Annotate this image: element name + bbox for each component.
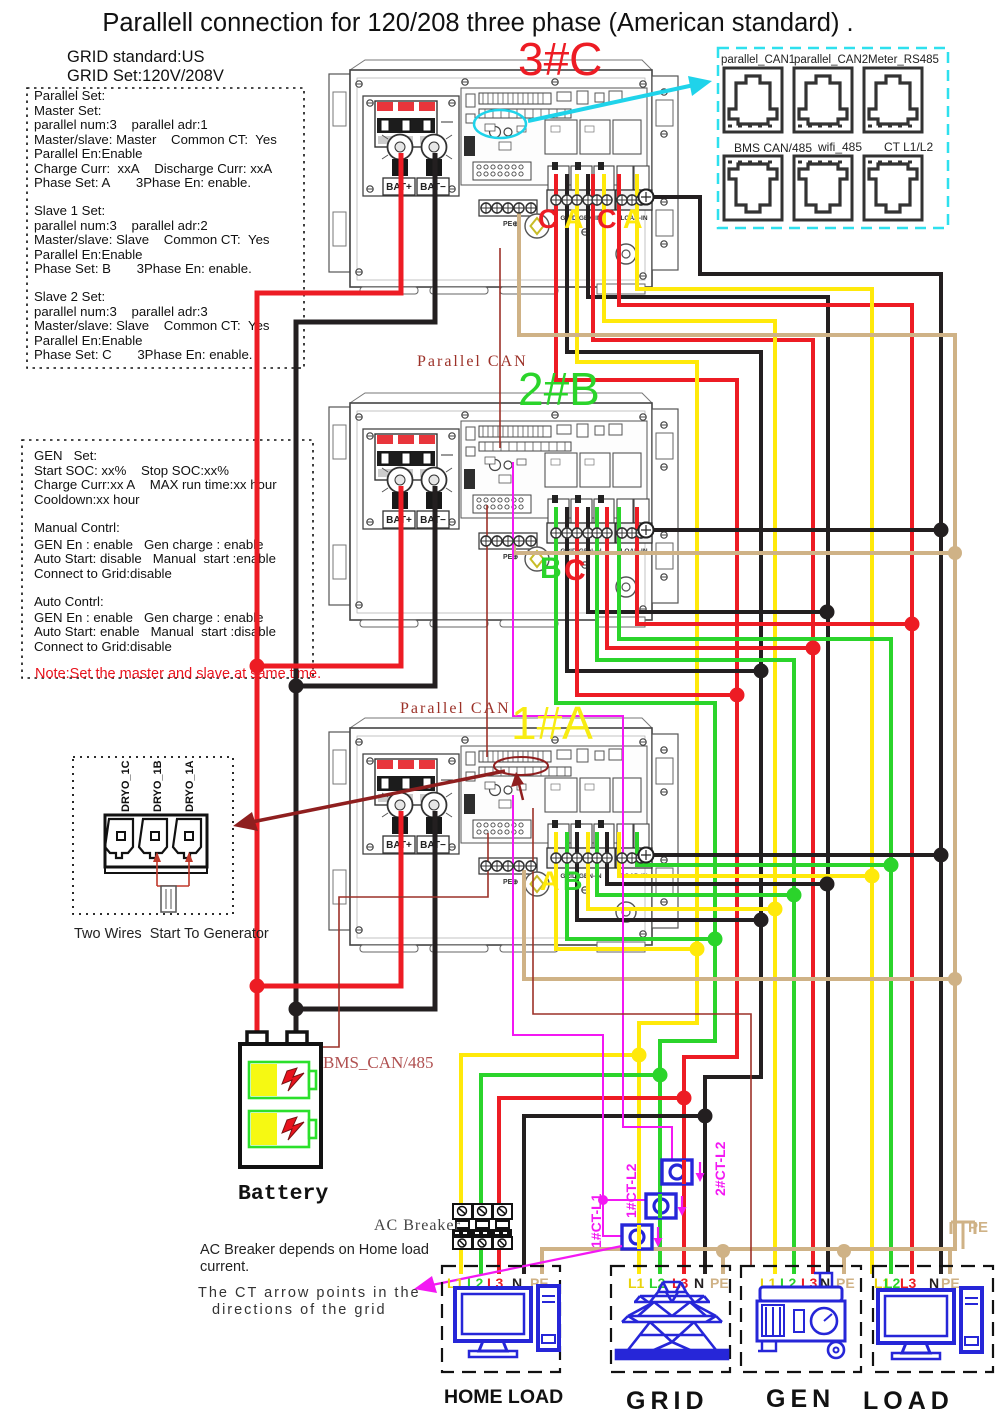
- svg-text:GRID standard:US: GRID standard:US: [67, 48, 205, 66]
- node label 1#CT-L1: [588, 1193, 604, 1248]
- node tan junction 2: [948, 972, 962, 986]
- wire 2#B BAT- black: [296, 486, 435, 686]
- wire 2#B LOAD L2 green: [619, 507, 891, 1274]
- svg-text:GEN En : enable Gen charge :: GEN En : enable Gen charge : enable: [34, 537, 263, 552]
- svg-text:Meter_RS485: Meter_RS485: [868, 54, 939, 66]
- node magenta arrow ct3: [654, 1227, 663, 1247]
- wire 1#A BAT- black: [296, 811, 435, 1009]
- node magenta junction 1: [598, 1195, 608, 1205]
- node LOAD computer icon: [878, 1288, 982, 1359]
- wire BMS CAN wire: [321, 833, 488, 1047]
- svg-text:Parallel En:Enable: Parallel En:Enable: [34, 333, 143, 348]
- terminal screws overlay 1#A: [481, 848, 654, 872]
- node LOAD dashed box: [873, 1266, 993, 1372]
- node BMS_CAN/485 label: [323, 1053, 434, 1072]
- node HOME LOAD computer icon: [455, 1286, 559, 1357]
- node red junction 4: [677, 1091, 692, 1106]
- node red junction 6: [905, 617, 920, 632]
- wire HOME L1 yellow: [461, 1055, 639, 1274]
- node label Parallel CAN lower: [400, 700, 511, 717]
- terminal screws overlay 2#B: [481, 523, 654, 547]
- node red junction 3: [730, 688, 745, 703]
- svg-text:Parallel Set:: Parallel Set:: [34, 88, 105, 103]
- svg-text:L1: L1: [760, 1275, 777, 1291]
- node black junction 5: [698, 1109, 713, 1124]
- svg-text:L2: L2: [780, 1275, 797, 1291]
- node magenta arrow ct2: [678, 1196, 687, 1216]
- svg-text:Cooldown:xx hour: Cooldown:xx hour: [34, 492, 140, 507]
- node black junction 2: [289, 1002, 304, 1017]
- wire 2#CT-L2 magenta: [513, 462, 672, 1164]
- node GEN generator icon: [757, 1273, 845, 1358]
- svg-text:Slave 2 Set:: Slave 2 Set:: [34, 289, 105, 304]
- svg-text:GEN: GEN: [766, 1385, 835, 1413]
- inverter 2#B unit: [329, 393, 678, 627]
- node tan junction 4: [837, 1244, 851, 1258]
- wire dark red arrow to DRY0: [233, 771, 505, 831]
- node magenta arrow ct1: [696, 1162, 705, 1182]
- svg-text:Charge Curr:xx A MAX run ti: Charge Curr:xx A MAX run time:xx hour: [34, 477, 277, 492]
- svg-text:C: C: [597, 204, 617, 234]
- wire parallel CAN 3#C-2#B: [499, 248, 501, 448]
- node breaker note text: [200, 1242, 429, 1275]
- svg-text:Manual Contrl:: Manual Contrl:: [34, 520, 120, 535]
- node phase labels 3#C C A C A: [538, 204, 643, 234]
- node yellow junction 1: [690, 942, 705, 957]
- svg-text:B: B: [563, 866, 583, 896]
- inverter 3#C unit: [329, 60, 678, 294]
- svg-text:GEN Set:: GEN Set:: [34, 448, 97, 463]
- wire 3#C GRID N black: [567, 174, 761, 1274]
- svg-text:Parallel En:Enable: Parallel En:Enable: [34, 247, 143, 262]
- svg-text:2#CT-L2: 2#CT-L2: [712, 1141, 728, 1196]
- battery cell 2: [249, 1111, 316, 1147]
- svg-text:directions of the grid: directions of the grid: [212, 1302, 387, 1318]
- svg-text:The CT arrow points in the: The CT arrow points in the: [198, 1285, 421, 1301]
- svg-text:Parallell connection for 120/2: Parallell connection for 120/208 three p…: [102, 9, 853, 37]
- svg-text:Master/slave: Slave Common: Master/slave: Slave Common CT: Yes: [34, 318, 270, 333]
- wire HOME L3 red: [499, 1098, 684, 1274]
- node yellow junction 2: [632, 1048, 647, 1063]
- node black junction 1: [289, 679, 304, 694]
- wire magenta CT pointer arrow: [414, 1246, 622, 1293]
- wire HOME L2 green: [481, 1075, 660, 1274]
- svg-text:Parallel CAN: Parallel CAN: [417, 353, 528, 370]
- connector RJ45 parallel_CAN1: [724, 68, 782, 132]
- node RJ45 labels row1: [721, 54, 939, 66]
- wire 1#A PE tan: [524, 870, 955, 979]
- node DRY0 dotted box: [73, 757, 233, 914]
- node label 1#A: [511, 697, 593, 749]
- svg-text:current.: current.: [200, 1259, 249, 1275]
- svg-text:Charge Curr: xxA Discharge: Charge Curr: xxA Discharge Curr: xxA: [34, 161, 272, 176]
- node GRID tower icon: [616, 1282, 728, 1359]
- node dark red highlight ellipse 1#A: [494, 757, 548, 775]
- node green junction 4: [884, 858, 899, 873]
- node black junction 8: [934, 523, 949, 538]
- node black junction 6: [820, 605, 835, 620]
- svg-text:2#B: 2#B: [518, 363, 600, 415]
- wire cyan arrow to RJ45 panel: [528, 76, 712, 121]
- breaker AC 3-pole: [452, 1204, 512, 1249]
- wire 1#A BAT+ red: [257, 811, 401, 986]
- wire 3#C GEN L1 yellow: [604, 174, 775, 1274]
- wire GRID PE tan drop: [721, 1249, 725, 1274]
- svg-text:Phase Set: C 3Phase En:: Phase Set: C 3Phase En: enable.: [34, 347, 252, 362]
- svg-text:DRYO_1A: DRYO_1A: [184, 760, 196, 812]
- node GRID dashed box: [611, 1266, 730, 1372]
- wire 3#C LOAD L1 yellow: [637, 174, 872, 1274]
- node LOAD phase labels: [874, 1275, 960, 1291]
- wire 3#C LOAD N black: [646, 197, 941, 1274]
- wire 3#C GEN N black: [588, 174, 828, 1274]
- node HOME LOAD phase labels: [447, 1275, 549, 1291]
- node CT note text: [198, 1285, 421, 1318]
- svg-text:DRYO_1B: DRYO_1B: [152, 760, 164, 812]
- node two wires text: [74, 926, 269, 942]
- node red junction 5: [806, 641, 821, 656]
- svg-text:wifi_485: wifi_485: [817, 140, 862, 154]
- node green junction 2: [653, 1068, 668, 1083]
- ground PE symbol: [951, 1219, 988, 1236]
- wire 2#B GRID N black: [567, 507, 761, 671]
- node black junction 9: [934, 848, 949, 863]
- svg-text:DRYO_1C: DRYO_1C: [120, 760, 132, 812]
- svg-text:GRID Set:120V/208V: GRID Set:120V/208V: [67, 67, 224, 85]
- wire DRY0 generator start arrows: [153, 852, 193, 912]
- svg-text:L1: L1: [628, 1275, 645, 1291]
- gen set dotted box: [22, 440, 313, 678]
- wire 1#A GEN L1 yellow: [588, 832, 775, 909]
- wire 2#B GEN N black: [588, 507, 827, 612]
- svg-text:B: B: [540, 552, 562, 585]
- wire 2#B GEN L2 green: [597, 507, 794, 1274]
- wire 3#C BAT- black bus: [296, 153, 435, 1036]
- svg-text:GRID: GRID: [626, 1387, 709, 1415]
- wire 3#C LOAD L3 red: [619, 174, 912, 1274]
- wire LOAD PE tan drop: [948, 1249, 952, 1274]
- svg-text:N: N: [694, 1275, 704, 1291]
- wire GEN signal dark red: [533, 808, 751, 1266]
- svg-text:parallel num:3 parallel adr: parallel num:3 parallel adr:1: [34, 117, 208, 132]
- wire GEN PE tan drop: [842, 1249, 846, 1274]
- transformer CT on yellow 1#CT-L1: [622, 1225, 652, 1249]
- svg-text:1#CT-L1: 1#CT-L1: [588, 1193, 604, 1248]
- wire 3#C BAT+ red bus: [257, 153, 401, 1036]
- node GEN phase labels: [760, 1275, 855, 1291]
- svg-text:A: A: [564, 204, 584, 234]
- wire 2#B LOAD N black: [646, 528, 941, 532]
- wire HOME N black: [524, 1116, 705, 1274]
- svg-text:L3: L3: [801, 1275, 818, 1291]
- svg-text:parallel_CAN2: parallel_CAN2: [794, 54, 868, 66]
- svg-text:PE: PE: [710, 1275, 729, 1291]
- connector RJ45 Meter_RS485: [864, 68, 922, 132]
- wire grid L2 through CT: [658, 1194, 662, 1218]
- svg-text:parallel_CAN1: parallel_CAN1: [721, 54, 795, 66]
- node yellow junction 4: [865, 869, 880, 884]
- svg-text:3#C: 3#C: [518, 33, 602, 85]
- wire dark red small arrow 1#A: [511, 772, 524, 800]
- node RJ45 panel dashed box: [718, 48, 948, 228]
- node black junction 4: [754, 913, 769, 928]
- wire 2#B PE tan: [514, 540, 955, 553]
- svg-text:LOAD: LOAD: [863, 1387, 954, 1415]
- connector RJ45 BMS CAN/485: [724, 156, 782, 220]
- node label 3#C: [518, 33, 602, 85]
- svg-text:GEN En : enable Gen charge :: GEN En : enable Gen charge : enable: [34, 610, 263, 625]
- svg-text:Slave 1 Set:: Slave 1 Set:: [34, 203, 105, 218]
- svg-text:Start SOC: xx% Stop SOC:xx%: Start SOC: xx% Stop SOC:xx%: [34, 463, 229, 478]
- wire 1#A GRID N black: [577, 832, 761, 920]
- svg-text:CT L1/L2: CT L1/L2: [884, 140, 933, 154]
- wire grid L1 through CT: [637, 1225, 641, 1249]
- svg-text:Phase Set: A 3Phase En:: Phase Set: A 3Phase En: enable.: [34, 175, 251, 190]
- svg-text:A: A: [623, 204, 643, 234]
- battery cell 1: [249, 1062, 316, 1098]
- connector RJ45 CT L1/L2: [864, 156, 922, 220]
- svg-text:BMS_CAN/485: BMS_CAN/485: [323, 1053, 434, 1072]
- connector RJ45 parallel_CAN2: [794, 68, 852, 132]
- node label 1#CT-L2: [623, 1163, 639, 1218]
- svg-text:C: C: [538, 204, 558, 234]
- svg-text:Master Set:: Master Set:: [34, 103, 101, 118]
- svg-text:parallel num:3 parallel adr: parallel num:3 parallel adr:3: [34, 304, 208, 319]
- svg-text:N: N: [820, 1275, 830, 1291]
- inverter 1#A unit: [329, 718, 678, 952]
- svg-text:Auto Start: enable Manual s: Auto Start: enable Manual start :disable: [34, 624, 276, 639]
- node AC Breaker label: [374, 1217, 461, 1234]
- battery B1: [240, 1044, 321, 1167]
- title: [102, 9, 853, 37]
- svg-text:1#A: 1#A: [511, 697, 593, 749]
- wire 1#A GRID L1 yellow: [556, 832, 697, 949]
- svg-text:HOME LOAD: HOME LOAD: [444, 1386, 563, 1408]
- node red junction 2: [250, 979, 265, 994]
- node yellow junction 3: [768, 902, 783, 917]
- svg-text:Connect to Grid:disable: Connect to Grid:disable: [34, 566, 172, 581]
- node label 2#CT-L2: [712, 1141, 728, 1196]
- node tan junction 1: [948, 546, 962, 560]
- parallel set text: [34, 88, 277, 362]
- svg-text:Parallel CAN: Parallel CAN: [400, 700, 511, 717]
- svg-text:A: A: [540, 866, 560, 896]
- node box name labels: [444, 1385, 954, 1415]
- transformer CT on red 2#CT-L2: [662, 1160, 692, 1184]
- node green junction 3: [787, 888, 802, 903]
- transformer CT on green 1#CT-L2: [646, 1194, 676, 1218]
- node label 2#B: [518, 363, 600, 415]
- wire 2#B GRID L2 green: [556, 507, 715, 1274]
- node phase labels 2#B B C: [540, 552, 586, 587]
- svg-text:Connect to Grid:disable: Connect to Grid:disable: [34, 639, 172, 654]
- node HOME LOAD dashed box: [442, 1266, 560, 1372]
- wire PE symbol stub tan: [962, 1222, 965, 1249]
- wire 3#C PE tan bus: [519, 208, 955, 1274]
- wire 3#C GRID L3 red: [556, 174, 737, 1274]
- wire 2#B GRID L3 red: [577, 507, 737, 695]
- wire 1#A LOAD N black: [646, 853, 941, 857]
- wire grid L3 through CT: [682, 1160, 686, 1184]
- svg-text:Auto Start: disable Manual: Auto Start: disable Manual start :enable: [34, 551, 276, 566]
- wire 3#C GEN L3 red: [593, 174, 813, 1274]
- svg-text:Master/slave: Master Common: Master/slave: Master Common CT: Yes: [34, 132, 277, 147]
- svg-text:AC Breaker: AC Breaker: [374, 1217, 461, 1234]
- wire parallel CAN 2#B-1#A: [486, 505, 488, 757]
- svg-text:Master/slave: Slave Common: Master/slave: Slave Common CT: Yes: [34, 232, 270, 247]
- node green junction 1: [708, 932, 723, 947]
- svg-text:PE: PE: [968, 1219, 988, 1236]
- node GEN dashed box: [741, 1266, 861, 1372]
- svg-text:parallel num:3 parallel adr: parallel num:3 parallel adr:2: [34, 218, 208, 233]
- svg-text:AC Breaker depends on Home loa: AC Breaker depends on Home load: [200, 1242, 429, 1258]
- wire 2#B GEN L3 red: [607, 507, 813, 648]
- node cyan highlight ellipse 3#C: [474, 110, 526, 138]
- svg-text:C: C: [564, 554, 586, 587]
- wire 1#A GEN N black: [607, 832, 827, 884]
- gen set text: [34, 448, 277, 654]
- wire 1#A LOAD L1 yellow: [619, 832, 872, 876]
- svg-text:BMS CAN/485: BMS CAN/485: [734, 141, 812, 155]
- wire 1#CT-L2 magenta: [603, 1199, 650, 1201]
- wire 1#A LOAD L2 green: [637, 832, 891, 865]
- svg-text:1#CT-L2: 1#CT-L2: [623, 1163, 639, 1218]
- svg-text:Auto Contrl:: Auto Contrl:: [34, 594, 104, 609]
- svg-text:Two Wires Start To Generator: Two Wires Start To Generator: [74, 926, 269, 942]
- parallel set dotted box: [27, 88, 304, 368]
- note red text: [35, 666, 321, 682]
- battery terminals: [247, 1032, 307, 1046]
- node red junction 1: [250, 659, 265, 674]
- node Battery label: [238, 1182, 328, 1206]
- wire 2#B BAT+ red: [257, 486, 401, 666]
- node label Parallel CAN upper: [417, 353, 528, 370]
- svg-text:Parallel En:Enable: Parallel En:Enable: [34, 146, 143, 161]
- wire 1#A GRID L2 green: [567, 832, 715, 939]
- node black junction 7: [820, 877, 835, 892]
- node GRID phase labels: [628, 1275, 729, 1291]
- node tan junction 3: [716, 1244, 730, 1258]
- wire 1#A GEN L2 green: [597, 832, 794, 895]
- node black junction 3: [754, 664, 769, 679]
- wire 1#CT-L1 magenta: [513, 795, 628, 1236]
- terminal screws overlay 3#C: [481, 190, 654, 214]
- svg-text:Battery: Battery: [238, 1182, 328, 1206]
- node DRY0 labels: [120, 760, 196, 812]
- grid standard text: [67, 48, 224, 85]
- wire 3#C GRID L1 yellow: [577, 174, 697, 1274]
- connector DRY0 terminal block: [105, 815, 207, 873]
- connector RJ45 wifi_485: [794, 156, 852, 220]
- node RJ45 labels row2: [734, 140, 933, 155]
- svg-text:Phase Set: B 3Phase En:: Phase Set: B 3Phase En: enable.: [34, 261, 252, 276]
- node phase labels 1#A A B: [540, 866, 583, 896]
- wire 2#B LOAD L3 red: [637, 507, 912, 624]
- svg-text:PE: PE: [836, 1275, 855, 1291]
